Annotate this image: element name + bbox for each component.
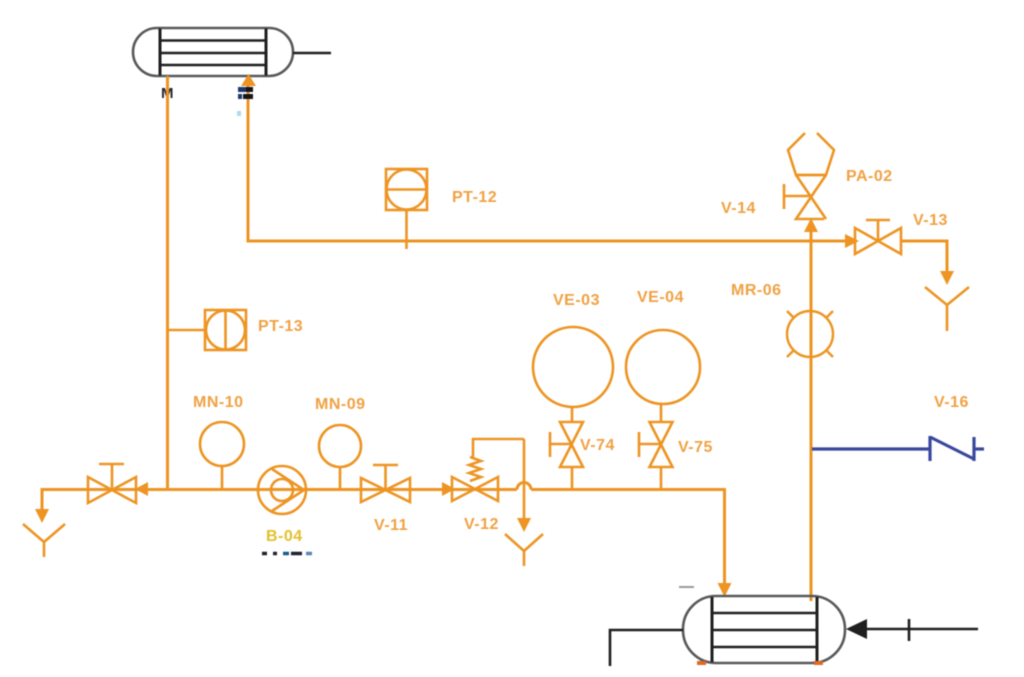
drain Y symbol right [925,287,969,331]
svg-text:PT-12: PT-12 [452,189,497,206]
pump B-04 [258,466,306,514]
svg-text:V-75: V-75 [678,439,713,456]
instrument PT-12 [386,169,427,249]
stem V-75 to pipe [660,467,663,490]
svg-text:VE-04: VE-04 [637,289,684,306]
E-02 left outlet line [610,630,683,666]
valve V-13 [855,220,901,254]
svg-text:V-14: V-14 [721,200,756,217]
svg-text:V-12: V-12 [464,516,499,533]
E-02 tube 1 [712,612,817,614]
stem V-74 to pipe [571,467,574,490]
bypass drop with crossing [523,439,526,519]
heat exchanger E-01 shell (top) [133,28,293,76]
valve V-14 (angle valve under PA-02) [784,175,826,219]
pipe: top header y=241 [247,240,849,243]
drain Y symbol left [23,524,65,557]
arrow up into E-01 [241,74,256,86]
E-02 tube sheet left [711,597,714,662]
arrow up into V-14 [804,218,818,232]
E-01 tube 2 [160,52,266,54]
E-02 tube 2 [712,629,817,631]
valve V-75 [639,422,673,467]
svg-text:B-04: B-04 [266,528,303,545]
svg-text:PT-13: PT-13 [258,318,303,335]
vessel VE-04 [626,330,700,404]
svg-text:V-74: V-74 [580,437,615,454]
arrow down V-12 drain [517,518,531,532]
svg-text:V-16: V-16 [934,394,969,411]
flow arrow before V-13 [845,234,859,248]
faint dash left of E-02 arrow [679,586,694,588]
pipe: riser to E-01 right nozzle (vertical x=248) [247,86,250,242]
E-01 tube 1 [160,39,266,41]
stem VE-04 to V-75 [660,404,663,423]
valve V-11 [361,465,410,502]
svg-text:VE-03: VE-03 [553,292,600,309]
drain Y symbol center [505,534,543,566]
left drain pipe [41,488,44,510]
relief valve PA-02 spring bonnet (pentagon) [788,133,834,175]
cyan speck below tag [237,111,241,116]
gauge MN-09 [319,425,361,489]
arrow into E-02 right nozzle [846,619,867,639]
hand valve (left, unnamed) [88,464,136,503]
instrument PT-13 [169,310,246,350]
heat exchanger E-02 shell (bottom) [683,596,845,663]
pipe: E-01 left nozzle down to main header (vertical x=167) [166,76,169,490]
E-01 right outlet line [293,52,331,54]
svg-text:V-13: V-13 [913,212,948,229]
E-01 tube sheet left [159,29,162,76]
pipe riser x=811 (from V-14 down to E-02) [810,230,813,601]
arrow down at V-13 drain [940,271,954,285]
valve V-74 [550,422,583,467]
E-02 bottom nozzle tick left [697,661,706,665]
E-01 tube 3 [160,64,266,66]
svg-text:MR-06: MR-06 [731,282,782,299]
main bottom header pipe y=489 with crossing jump at x=524 [42,483,725,585]
rotameter MR-06 [787,311,833,357]
E-02 tube sheet right [816,597,819,662]
vessel VE-03 [533,327,613,407]
pipe from V-13 to drain [901,241,947,272]
gauge MN-10 [200,422,244,489]
arrow down into E-02 [718,583,732,597]
E-02 bottom nozzle tick right [814,661,823,665]
flow arrow toward valve [135,482,148,496]
blue capped branch V-16 [812,436,984,461]
svg-text:MN-10: MN-10 [193,394,244,411]
arrow down left drain [35,509,49,523]
svg-text:MN-09: MN-09 [315,396,366,413]
svg-text:V-11: V-11 [374,517,408,534]
tag mark below E-01 right nozzle [238,87,253,99]
stem VE-03 to V-74 [571,406,574,423]
flow arrow into V-12 [442,482,455,496]
E-02 tube 3 [712,646,817,648]
E-01 tube sheet right [265,29,268,76]
E-02 right inlet line [862,619,978,641]
dashed mark under B-04 [262,552,312,556]
regulator valve V-12 [452,439,524,501]
svg-text:PA-02: PA-02 [846,168,893,185]
